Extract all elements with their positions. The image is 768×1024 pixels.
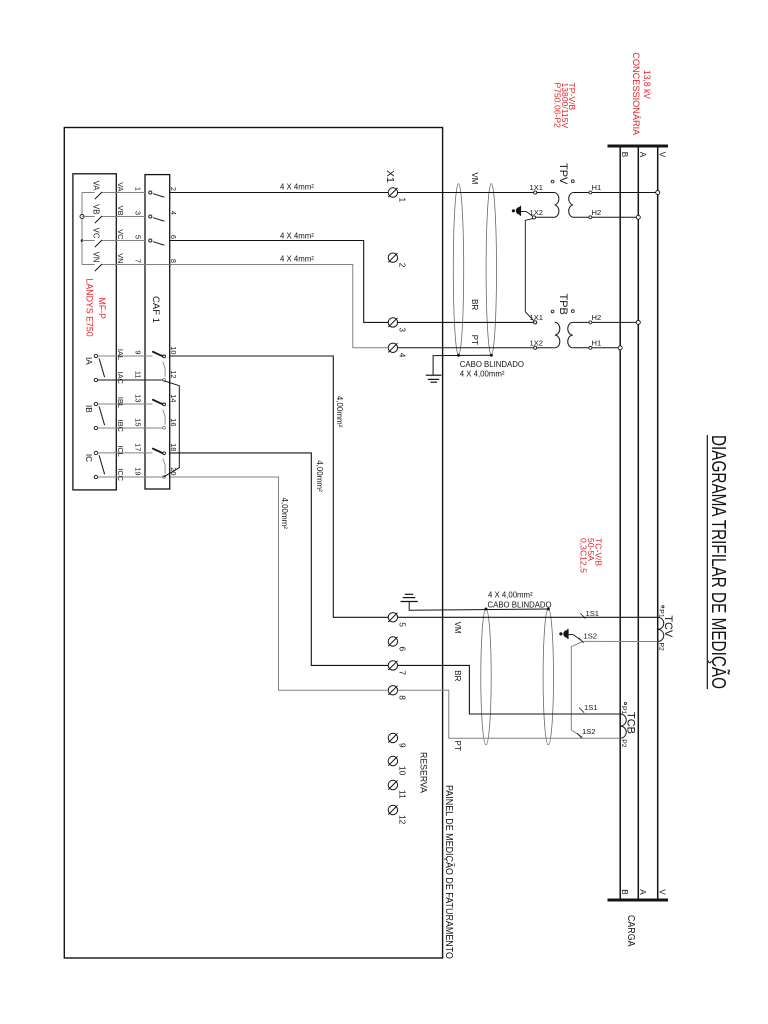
svg-text:17: 17 [133, 443, 142, 451]
wire IC: CAF1-18 to X1-7 to TCB-1S1 [170, 453, 389, 666]
svg-text:RESERVA: RESERVA [419, 752, 429, 793]
svg-text:4 X 4mm²: 4 X 4mm² [280, 231, 314, 240]
svg-text:4 X 4mm²: 4 X 4mm² [280, 183, 314, 192]
meter current terminals IA [94, 354, 97, 357]
shielded cable oval (TC cable, outer) [481, 609, 491, 745]
svg-text:9: 9 [133, 350, 142, 354]
wire shield drain (TP cable) [433, 355, 491, 375]
svg-text:1X1: 1X1 [530, 313, 544, 322]
pin label P1 of TCB [624, 702, 626, 704]
wire IBC meter to CAF1 [98, 427, 145, 429]
terminal X1-4 [388, 343, 397, 352]
svg-text:18: 18 [169, 443, 178, 451]
svg-text:3: 3 [133, 211, 142, 215]
svg-text:10: 10 [169, 346, 178, 354]
bus load end bar (carga) [608, 899, 669, 902]
svg-text:A: A [638, 889, 647, 895]
svg-text:P1: P1 [657, 609, 664, 618]
terminal strip CAF 1 box [145, 175, 170, 489]
wire VB meter to CAF1 [116, 216, 145, 218]
svg-text:CAF 1: CAF 1 [150, 296, 161, 323]
svg-text:1X1: 1X1 [530, 183, 544, 192]
terminal X1-1 [388, 188, 397, 197]
svg-text:VA: VA [92, 181, 101, 192]
junction on link at VB [80, 215, 84, 219]
svg-text:13,8 kV: 13,8 kV [642, 70, 652, 100]
switch blade IC [99, 455, 105, 474]
svg-text:5: 5 [397, 622, 407, 627]
junction TPB H1 on bus B [618, 346, 622, 350]
shield drain junction dots (TP cable) [457, 354, 460, 357]
wire TPB H1 to bus [573, 347, 620, 349]
svg-text:IBC: IBC [116, 420, 125, 433]
svg-text:P2: P2 [657, 643, 664, 652]
svg-text:2: 2 [169, 187, 178, 191]
wire IN: CAF1-20 to X1-8 to TCB-1S2 [170, 477, 389, 690]
contact circles on TPV primary leads [589, 191, 592, 194]
wire ICL meter to CAF1 [98, 452, 145, 454]
svg-text:1S1: 1S1 [584, 703, 598, 712]
svg-text:MF-P: MF-P [97, 298, 107, 320]
svg-text:IBL: IBL [116, 397, 125, 408]
TPB polarity dots [571, 310, 574, 313]
svg-text:H2: H2 [592, 313, 602, 322]
switch blade IA [99, 358, 105, 377]
svg-text:13: 13 [133, 394, 142, 402]
svg-text:VM: VM [470, 172, 479, 184]
svg-text:P1: P1 [620, 706, 627, 715]
CAF1 current test switch terminals 9-12 [152, 351, 163, 356]
terminal X1-12 [388, 805, 397, 814]
svg-text:V: V [657, 889, 666, 895]
CAF1 switch terminals 5-6 [149, 239, 152, 242]
wire IA: CAF1-10 to X1-5 to TCV-1S1 [170, 356, 389, 617]
svg-text:TPB: TPB [557, 294, 569, 315]
svg-text:1: 1 [133, 187, 142, 191]
svg-text:B: B [620, 152, 629, 158]
wire link TPV-1X2 to TPB-1X1 [525, 219, 535, 323]
terminal X1-3 [388, 318, 397, 327]
svg-text:4 X 4,00mm²: 4 X 4,00mm² [460, 369, 505, 378]
earth ground (TP cable shield) [426, 375, 442, 382]
wire IBL meter to CAF1 [98, 403, 145, 405]
shielded cable oval (TP cable, inner) [486, 184, 496, 355]
svg-text:CABO BLINDADO: CABO BLINDADO [460, 360, 524, 369]
svg-text:CARGA: CARGA [625, 915, 637, 947]
svg-text:VB: VB [116, 206, 125, 216]
pin label P1 of TCV [662, 606, 664, 608]
svg-text:BR: BR [470, 299, 479, 310]
svg-text:1S2: 1S2 [584, 632, 598, 641]
svg-text:PAINEL DE MEDIÇÃO DE FATURAMEN: PAINEL DE MEDIÇÃO DE FATURAMENTO [443, 785, 456, 959]
terminal X1-6 [388, 637, 397, 646]
current transformer TCB [620, 714, 626, 738]
svg-text:H1: H1 [592, 183, 602, 192]
svg-text:P2: P2 [620, 739, 627, 748]
svg-text:11: 11 [133, 371, 142, 379]
terminal X1-7 [388, 661, 397, 670]
svg-text:IAC: IAC [116, 372, 125, 385]
svg-text:6: 6 [397, 647, 407, 652]
svg-text:IB: IB [84, 405, 93, 413]
contact circles on TPB primary leads [589, 321, 592, 324]
wire stubs rows 17 19 inside CAF1 [145, 452, 153, 454]
svg-text:LANDYS E750: LANDYS E750 [85, 279, 95, 337]
svg-text:3: 3 [397, 327, 407, 332]
shield ground symbol at TP link [512, 206, 532, 216]
svg-text:1: 1 [397, 198, 407, 203]
svg-text:1X2: 1X2 [530, 338, 544, 347]
transformer TPB [555, 322, 573, 347]
meter current terminals IC [94, 451, 97, 454]
svg-text:ICC: ICC [116, 468, 125, 481]
wire VC meter to CAF1 [116, 240, 145, 242]
svg-text:15: 15 [133, 418, 142, 426]
svg-text:TPV: TPV [557, 163, 569, 185]
svg-text:IAL: IAL [116, 349, 125, 360]
svg-text:IC: IC [84, 454, 93, 462]
CAF1 switch terminals 3-4 [149, 215, 152, 218]
svg-text:TCV: TCV [662, 615, 674, 638]
terminal X1-9 [388, 733, 397, 742]
CAF1 switch terminals 1-2 [149, 191, 152, 194]
shield drain junction dots (TC cable) [485, 608, 488, 611]
svg-text:4: 4 [397, 353, 407, 358]
wire VA: CAF1-2 to X1-1 to TPV-1X1 [170, 192, 389, 194]
junction TPB 1X2 [534, 346, 537, 349]
node A (13.8kV bus phase A) [637, 146, 639, 900]
wire TPB H2 to bus [573, 321, 639, 323]
wire IAC meter to CAF1 [98, 379, 145, 381]
terminal X1-11 [388, 780, 397, 789]
svg-text:VC: VC [116, 229, 125, 240]
CAF1 current test switch terminals 17-20 [152, 448, 163, 453]
svg-text:A: A [638, 152, 647, 158]
terminal X1-8 [388, 686, 397, 695]
svg-text:10: 10 [397, 766, 407, 776]
svg-text:12: 12 [397, 815, 407, 825]
jumper CAF1 terminal 12 to 20 [163, 381, 179, 478]
svg-text:VA: VA [116, 182, 125, 191]
wire stubs rows 13 15 inside CAF1 [145, 403, 153, 405]
switch blade IB [99, 406, 105, 425]
CAF1 switch terminals 7-8 [145, 264, 170, 266]
junction TPB 1X1 [534, 321, 537, 324]
TPV polarity dots [571, 180, 574, 183]
svg-text:H1: H1 [592, 338, 602, 347]
terminal X1-10 [388, 756, 397, 765]
svg-text:VN: VN [116, 253, 125, 263]
svg-text:8: 8 [169, 259, 178, 263]
junction TPB H2 on bus A [636, 320, 640, 324]
shielded cable oval (TC cable, inner) [543, 609, 553, 745]
bus source end bar (concessionária) [608, 145, 669, 148]
panel enclosure box [64, 128, 442, 959]
svg-text:11: 11 [397, 790, 407, 799]
svg-text:TCB: TCB [625, 712, 637, 734]
wire IAL meter to CAF1 [98, 355, 145, 357]
wire VC: CAF1-6 to X1-3 to TPB-1X1 [170, 241, 389, 323]
svg-text:4,00mm²: 4,00mm² [315, 460, 324, 492]
svg-text:X1: X1 [384, 170, 396, 183]
meter voltage switch VA [82, 192, 95, 194]
junction on link at VC [81, 239, 84, 242]
node V (13.8kV bus phase V) [657, 146, 659, 900]
wire ICC meter to CAF1 [98, 476, 145, 478]
junction TPV H2 on bus A [636, 215, 640, 219]
wire TPV secondary 1X2 stub [536, 216, 555, 218]
svg-text:8: 8 [397, 695, 407, 700]
svg-text:5: 5 [133, 235, 142, 239]
svg-text:4,00mm²: 4,00mm² [280, 497, 289, 529]
svg-text:DIAGRAMA TRIFILAR DE MEDIÇÃO: DIAGRAMA TRIFILAR DE MEDIÇÃO [707, 435, 730, 689]
terminal X1-5 [388, 613, 397, 622]
svg-text:PT: PT [470, 335, 479, 345]
current transformer TCV [658, 617, 664, 641]
svg-text:9: 9 [397, 743, 407, 748]
node B (13.8kV bus phase B) [619, 146, 621, 900]
svg-text:14: 14 [169, 394, 178, 402]
wire shield drain (TC cable) [409, 602, 548, 611]
svg-text:VM: VM [453, 622, 462, 634]
svg-text:IA: IA [84, 357, 93, 365]
meter current terminals IB [94, 402, 97, 405]
svg-text:P750.06-P2: P750.06-P2 [553, 83, 563, 129]
svg-text:7: 7 [397, 670, 407, 675]
wire VA meter to CAF1 [116, 192, 145, 194]
svg-text:PT: PT [453, 741, 462, 751]
wire TC 1S2 link [571, 641, 582, 737]
svg-text:VN: VN [92, 252, 101, 263]
svg-text:CABO BLINDADO: CABO BLINDADO [488, 601, 552, 610]
svg-text:4: 4 [169, 211, 178, 215]
svg-text:1S2: 1S2 [582, 727, 596, 736]
svg-text:0,3C12,5: 0,3C12,5 [579, 538, 589, 573]
title underline [706, 435, 708, 689]
transformer TPV [555, 193, 573, 218]
svg-text:CONCESSIONÁRIA: CONCESSIONÁRIA [631, 52, 641, 136]
shielded cable oval (TP cable, outer) [453, 184, 463, 355]
svg-text:4 X 4mm²: 4 X 4mm² [280, 254, 314, 263]
wire stubs rows 9 11 inside CAF1 [145, 355, 153, 357]
terminal X1-2 [388, 253, 397, 262]
CAF1 current test switch terminals 13-16 [152, 399, 163, 404]
wire VN meter to CAF1 [116, 264, 145, 266]
svg-text:16: 16 [169, 418, 178, 426]
svg-text:6: 6 [169, 235, 178, 239]
wire TPV H1 to bus [573, 192, 658, 194]
meter voltage switch VB [82, 216, 95, 218]
svg-text:2: 2 [397, 263, 407, 268]
meter voltage switch VN [82, 264, 95, 266]
junction TPV H1 on bus V [656, 191, 660, 195]
wire TCV 1S2 [583, 640, 658, 642]
junction TPV 1X2 [532, 216, 535, 219]
svg-text:BR: BR [453, 670, 462, 681]
svg-text:B: B [620, 889, 629, 895]
earth ground (TC cable shield) [401, 594, 418, 601]
wire TPV H2 to bus [573, 216, 639, 218]
meter voltage link bar [81, 193, 83, 265]
svg-text:VC: VC [92, 228, 101, 239]
svg-text:ICL: ICL [116, 445, 125, 457]
svg-text:4 X 4,00mm²: 4 X 4,00mm² [488, 591, 533, 600]
shield ground symbol at TC link [560, 629, 581, 640]
wire VN: CAF1-8 to X1-4 to TPB-1X2 [170, 265, 389, 348]
svg-text:4,00mm²: 4,00mm² [335, 396, 344, 428]
meter voltage switch VC [82, 240, 95, 242]
svg-text:7: 7 [133, 259, 142, 263]
svg-text:12: 12 [169, 370, 178, 378]
svg-text:H2: H2 [592, 208, 602, 217]
meter MF-P box [73, 174, 116, 490]
svg-text:V: V [657, 152, 666, 158]
svg-text:VB: VB [92, 204, 101, 214]
svg-text:19: 19 [133, 467, 142, 475]
